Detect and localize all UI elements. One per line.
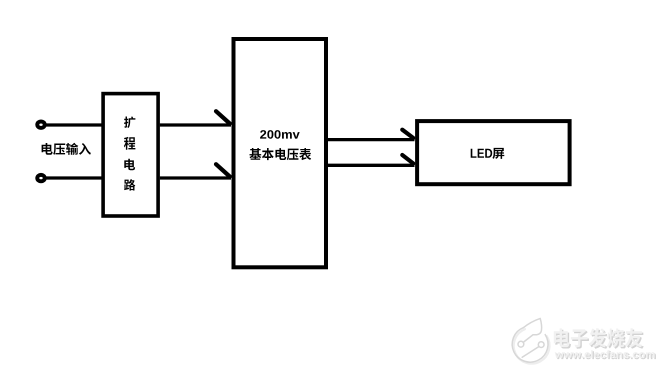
input terminal T2 (lower): [37, 175, 44, 181]
label 基本电压表: [249, 148, 311, 160]
wire arrow 扩程电路 to 基本电压表 lower: [160, 164, 231, 178]
label 200mv: [260, 130, 300, 139]
wire arrow 基本电压表 to LED屏 lower: [328, 155, 415, 165]
label 程: [124, 137, 135, 150]
wire arrow 基本电压表 to LED屏 upper: [328, 130, 415, 140]
label 屏: [492, 148, 504, 159]
watermark logo elecfans: [512, 318, 549, 363]
block 扩程电路 (range-extender circuit): [103, 94, 158, 216]
label 电压输入 (voltage input): [42, 143, 91, 155]
label LED: [471, 149, 493, 158]
wire arrow 扩程电路 to 基本电压表 upper: [160, 111, 231, 125]
block 200mv 基本电压表 (basic voltmeter): [234, 39, 327, 267]
block LED屏 (LED display): [417, 121, 569, 184]
label 路: [124, 179, 135, 191]
wire T1 to block 扩程电路: [45, 123, 103, 126]
label 扩: [124, 117, 135, 129]
label 电: [124, 159, 135, 171]
watermark text 电子发烧友: [554, 328, 644, 349]
wire T2 to block 扩程电路: [45, 176, 103, 179]
input terminal T1 (upper): [37, 122, 44, 128]
watermark text www.elecfans.com: [555, 350, 656, 359]
